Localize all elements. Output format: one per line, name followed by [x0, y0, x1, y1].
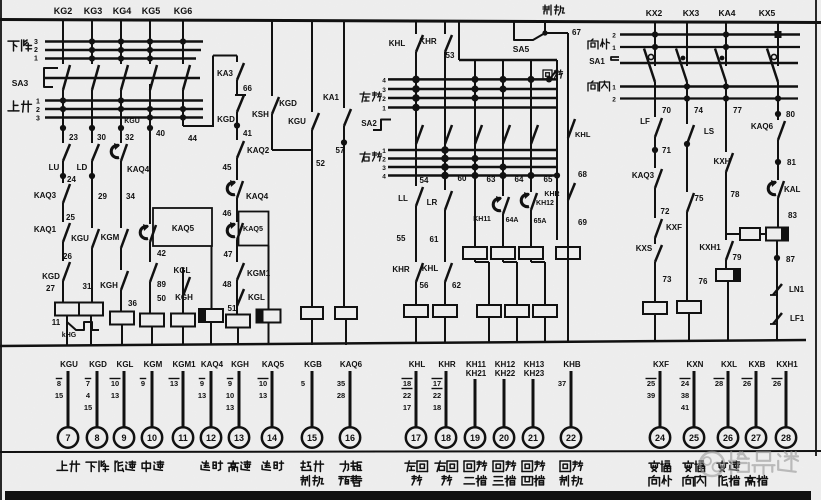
wire KGD column	[271, 21, 273, 96]
contact pivot ring	[771, 54, 776, 59]
svg-text:44: 44	[188, 134, 197, 143]
svg-text:40: 40	[156, 129, 165, 138]
svg-text:KHB: KHB	[563, 360, 581, 369]
wire coil to bus	[654, 314, 656, 341]
svg-text:29: 29	[98, 192, 107, 201]
coil KH11	[463, 247, 487, 259]
junction dot 24	[60, 173, 66, 179]
junction dots KA4	[723, 31, 729, 37]
wire 53 column	[458, 21, 460, 60]
contact KGM	[121, 229, 128, 248]
svg-text:9: 9	[121, 433, 126, 443]
svg-text:LR: LR	[427, 198, 438, 207]
svg-text:KGU: KGU	[124, 118, 140, 125]
svg-text:KH23: KH23	[524, 369, 545, 378]
wire rotation column 63	[502, 60, 504, 196]
junction dots col60	[472, 76, 479, 83]
svg-text:75: 75	[695, 194, 704, 203]
svg-text:16: 16	[345, 433, 355, 443]
contact LU	[63, 144, 70, 161]
contact KAQ3	[63, 184, 70, 203]
svg-text:KG6: KG6	[174, 6, 193, 16]
svg-text:53: 53	[446, 51, 455, 60]
wire coil to bus	[151, 327, 153, 346]
wire coil to bus	[210, 322, 212, 346]
svg-text:KGM1: KGM1	[247, 269, 271, 278]
coil KAQ6	[335, 307, 357, 319]
svg-text:KH22: KH22	[495, 369, 516, 378]
svg-text:66: 66	[243, 84, 252, 93]
junction dot 81	[775, 159, 781, 165]
svg-text:2: 2	[34, 47, 38, 54]
wire KA1 column	[343, 21, 345, 108]
contact KXH1	[726, 241, 733, 260]
svg-text:47: 47	[224, 250, 233, 259]
svg-text:SA3: SA3	[12, 78, 29, 88]
svg-text:KXL: KXL	[721, 360, 737, 369]
wire KG2 column	[62, 21, 64, 64]
junction dot 80	[775, 111, 781, 117]
contact SA2 band	[445, 125, 452, 144]
watermark text taodiaomi	[730, 452, 732, 474]
contact KAQ6	[778, 121, 785, 140]
svg-text:2: 2	[612, 33, 616, 40]
svg-text:LD: LD	[77, 163, 88, 172]
svg-text:11: 11	[52, 318, 61, 327]
svg-text:28: 28	[781, 433, 791, 443]
svg-text:50: 50	[157, 294, 166, 303]
contact LS	[687, 125, 694, 144]
svg-text:42: 42	[157, 249, 166, 258]
junction dots col64	[528, 76, 535, 83]
contact KA3	[236, 56, 238, 63]
contact KGU	[312, 113, 319, 130]
svg-text:54: 54	[420, 176, 429, 185]
label zuozhuan (left turn)	[360, 93, 370, 95]
row end hook	[549, 71, 556, 80]
svg-text:31: 31	[83, 282, 92, 291]
svg-text:22: 22	[433, 391, 441, 400]
svg-text:SA2: SA2	[361, 119, 377, 128]
coil KH23	[533, 305, 557, 317]
SA3 common line	[45, 77, 200, 79]
svg-text:76: 76	[699, 277, 708, 286]
wire KHL column	[415, 21, 417, 34]
contact SA1 KX5	[767, 49, 778, 83]
SA1 common line	[620, 62, 798, 64]
junction dots KG6	[180, 38, 186, 44]
contact LL	[416, 187, 423, 206]
contact SA2 band	[475, 125, 482, 144]
svg-text:56: 56	[420, 281, 429, 290]
svg-text:KGM1: KGM1	[172, 360, 196, 369]
svg-text:KG3: KG3	[84, 6, 103, 16]
svg-text:KAQ4: KAQ4	[246, 192, 269, 201]
svg-text:52: 52	[316, 159, 325, 168]
contact KAQ3	[655, 169, 662, 188]
svg-text:KAQ6: KAQ6	[340, 360, 363, 369]
svg-text:1: 1	[382, 148, 386, 155]
label huizhuan (rotate)	[543, 69, 552, 71]
svg-text:7: 7	[65, 433, 70, 443]
svg-text:10: 10	[147, 433, 157, 443]
svg-text:26: 26	[743, 379, 751, 388]
coil KGB	[301, 307, 323, 319]
wire KG6 to KA3 loop	[183, 125, 213, 127]
svg-text:KH21: KH21	[466, 369, 487, 378]
svg-text:KHR: KHR	[419, 37, 437, 46]
svg-text:69: 69	[578, 218, 587, 227]
svg-text:LF: LF	[640, 117, 650, 126]
wire coil to bus	[66, 316, 68, 346]
svg-text:22: 22	[403, 391, 411, 400]
wire coil to bus	[415, 317, 417, 343]
svg-text:55: 55	[397, 234, 406, 243]
svg-text:19: 19	[470, 433, 480, 443]
svg-text:3: 3	[36, 116, 40, 123]
svg-text:kHG: kHG	[62, 332, 77, 339]
svg-text:KA4: KA4	[718, 8, 735, 18]
svg-text:KAQ3: KAQ3	[632, 171, 655, 180]
svg-text:4: 4	[382, 174, 386, 181]
junction dots KG3	[89, 38, 95, 44]
svg-text:17: 17	[403, 403, 411, 412]
contact KAQ1	[63, 223, 70, 242]
svg-text:61: 61	[430, 235, 439, 244]
svg-text:KH12: KH12	[536, 200, 554, 207]
svg-text:73: 73	[663, 275, 672, 284]
svg-text:KHR: KHR	[544, 191, 559, 198]
wire SA5 output line	[459, 59, 557, 61]
svg-text:39: 39	[647, 391, 655, 400]
svg-text:LS: LS	[704, 127, 715, 136]
svg-text:9: 9	[228, 379, 232, 388]
coil KAL	[740, 228, 760, 240]
contact KHR	[416, 263, 423, 282]
svg-text:KX2: KX2	[646, 8, 663, 18]
coil KXL	[716, 269, 740, 281]
contact pivot ring	[648, 54, 653, 59]
svg-text:17: 17	[411, 433, 421, 443]
contact SA2 band	[416, 125, 423, 144]
svg-text:7: 7	[86, 379, 90, 388]
watermark logo circle	[700, 452, 798, 476]
svg-text:3: 3	[382, 87, 386, 94]
terminal baseline	[0, 451, 821, 452]
junction dots col63	[500, 76, 507, 83]
svg-text:SA1: SA1	[589, 57, 605, 66]
coil KH12	[491, 247, 515, 259]
wire coil to bus	[182, 327, 184, 346]
svg-text:KAQ5: KAQ5	[262, 360, 285, 369]
descend row lines (xiajiang 3,2,1)	[45, 40, 203, 43]
contact KGM1	[237, 263, 244, 280]
coil KH22	[505, 305, 529, 317]
svg-text:KGM: KGM	[144, 360, 163, 369]
svg-text:KGH: KGH	[100, 281, 118, 290]
svg-text:13: 13	[259, 391, 267, 400]
contact SA1 KX2	[644, 49, 655, 83]
delay contact KH11	[503, 197, 509, 214]
wire coil to bus	[121, 325, 123, 346]
contact SA1 KX3	[676, 49, 687, 83]
wire coil to bus	[688, 313, 690, 341]
svg-text:KAQ4: KAQ4	[201, 360, 224, 369]
svg-text:77: 77	[733, 106, 742, 115]
wire coil to bus	[544, 317, 546, 343]
svg-text:24: 24	[655, 433, 665, 443]
wire KX3 column	[686, 21, 688, 66]
svg-text:48: 48	[223, 280, 232, 289]
wire KGU column	[311, 21, 313, 112]
junction dot col65	[554, 172, 560, 178]
contact KGL	[237, 289, 244, 306]
label shangsheng (ascend)	[13, 101, 15, 111]
svg-text:KX3: KX3	[683, 8, 700, 18]
coil KGM1	[171, 314, 195, 327]
junction dots KHR right-turn	[441, 146, 449, 154]
svg-text:63: 63	[487, 175, 496, 184]
svg-text:26: 26	[723, 433, 733, 443]
svg-text:10: 10	[259, 379, 267, 388]
svg-text:64: 64	[515, 175, 524, 184]
coil KGH	[226, 315, 250, 328]
svg-text:18: 18	[403, 379, 411, 388]
contact KGD	[272, 97, 279, 114]
relay box KAQ5b	[239, 212, 269, 246]
svg-text:KGU: KGU	[71, 234, 89, 243]
wire to lower coil	[502, 259, 504, 262]
svg-text:10: 10	[226, 391, 234, 400]
svg-text:12: 12	[206, 433, 216, 443]
svg-text:LU: LU	[49, 163, 60, 172]
svg-text:34: 34	[126, 192, 135, 201]
svg-text:3: 3	[382, 165, 386, 172]
svg-text:1: 1	[612, 85, 616, 92]
contact KA1	[344, 109, 351, 126]
wire KA3 loop left	[212, 56, 214, 128]
svg-text:13: 13	[234, 433, 244, 443]
wire coil to bus	[444, 317, 446, 343]
svg-text:25: 25	[689, 433, 699, 443]
wire KG3 column	[91, 21, 93, 64]
wire brake tap	[544, 22, 546, 33]
wire coil to bus	[488, 317, 490, 343]
svg-text:24: 24	[67, 175, 76, 184]
svg-text:38: 38	[681, 391, 689, 400]
svg-text:24: 24	[681, 379, 690, 388]
outward row lines	[620, 33, 800, 36]
svg-text:KGD: KGD	[89, 360, 107, 369]
contact SA2 band	[503, 125, 510, 144]
wire KG6 column	[182, 21, 184, 64]
svg-text:KA3: KA3	[217, 69, 234, 78]
svg-text:23: 23	[69, 133, 78, 142]
wire to coil KAL	[726, 233, 740, 235]
inward row lines	[620, 85, 798, 88]
wire coil to bus	[90, 316, 92, 346]
coil KH13	[519, 247, 543, 259]
svg-text:79: 79	[733, 253, 742, 262]
svg-text:32: 32	[125, 133, 134, 142]
svg-text:KXH: KXH	[714, 157, 731, 166]
svg-text:KXH1: KXH1	[699, 243, 721, 252]
svg-text:62: 62	[452, 281, 461, 290]
label xiajiang (descend)	[8, 40, 19, 42]
junction dots KX2	[652, 31, 658, 37]
wire brake column 67	[567, 33, 569, 343]
svg-text:57: 57	[336, 146, 345, 155]
svg-text:KX5: KX5	[759, 8, 776, 18]
wire coil to bus	[311, 319, 313, 345]
svg-text:LF1: LF1	[790, 314, 805, 323]
svg-text:41: 41	[681, 403, 689, 412]
wire KX2 column	[654, 21, 656, 66]
contact LF1	[773, 313, 782, 324]
svg-text:46: 46	[223, 209, 232, 218]
svg-text:21: 21	[528, 433, 538, 443]
svg-text:25: 25	[647, 379, 655, 388]
svg-text:36: 36	[128, 299, 137, 308]
contact KSH	[237, 95, 244, 112]
coil KGU	[55, 303, 79, 316]
svg-text:83: 83	[788, 211, 797, 220]
svg-text:67: 67	[572, 28, 581, 37]
wire KA3 loop top	[213, 55, 237, 57]
scan left border	[0, 0, 2, 500]
svg-text:KSH: KSH	[252, 110, 269, 119]
contact SA2 band	[531, 125, 538, 144]
wire KHR column	[444, 21, 446, 34]
contact KGH	[121, 271, 128, 290]
scan right border	[815, 0, 817, 456]
relay box KAQ5	[153, 208, 212, 246]
svg-text:KGU: KGU	[60, 360, 78, 369]
wire KG5 column	[149, 21, 151, 64]
svg-text:65: 65	[544, 175, 553, 184]
svg-text:80: 80	[786, 110, 795, 119]
contact LR	[445, 191, 452, 210]
junction dots KG4	[118, 38, 124, 44]
svg-text:45: 45	[223, 163, 232, 172]
svg-text:68: 68	[578, 170, 587, 179]
delay contact KAL	[778, 181, 784, 198]
svg-text:13: 13	[198, 391, 206, 400]
delay contact KAQ5 arm	[150, 225, 156, 242]
svg-text:20: 20	[499, 433, 509, 443]
wire KX5 column	[777, 21, 779, 66]
coil KXF	[643, 302, 667, 314]
svg-text:KHR: KHR	[438, 360, 456, 369]
svg-text:37: 37	[558, 379, 566, 388]
wire coil to bus	[345, 319, 347, 345]
delay contact KAQ4	[121, 144, 127, 161]
svg-text:15: 15	[84, 403, 92, 412]
svg-text:KHL: KHL	[575, 130, 591, 139]
right-turn row lines	[388, 149, 557, 152]
contact KGD	[63, 262, 70, 281]
svg-text:4: 4	[382, 78, 386, 85]
contact KXN	[687, 193, 694, 212]
svg-text:28: 28	[715, 379, 723, 388]
svg-text:2: 2	[382, 157, 386, 164]
contact SA1 KA4	[715, 49, 726, 83]
svg-text:30: 30	[97, 133, 106, 142]
svg-text:28: 28	[337, 391, 345, 400]
wire to lower coil	[530, 259, 532, 262]
ascend row lines (shangsheng 1,2,3)	[45, 99, 203, 102]
svg-text:13: 13	[170, 379, 178, 388]
svg-text:KXS: KXS	[636, 244, 653, 253]
svg-text:2: 2	[612, 97, 616, 104]
contact KXH	[726, 153, 733, 172]
svg-text:KH12: KH12	[495, 360, 516, 369]
wire coil to bus	[516, 317, 518, 343]
svg-text:60: 60	[458, 174, 467, 183]
coil KXB	[766, 228, 788, 241]
svg-text:KGD: KGD	[42, 272, 60, 281]
svg-text:KA1: KA1	[323, 93, 340, 102]
svg-text:64A: 64A	[506, 217, 519, 224]
svg-text:KHR: KHR	[392, 265, 410, 274]
junction dot 71	[652, 147, 658, 153]
svg-text:SA5: SA5	[513, 44, 530, 54]
contact KHR2	[568, 183, 575, 200]
svg-text:35: 35	[337, 379, 345, 388]
svg-text:10: 10	[111, 379, 119, 388]
svg-text:51: 51	[228, 304, 237, 313]
contact KGL	[150, 263, 157, 282]
svg-text:KGL: KGL	[117, 360, 134, 369]
junction dots KG2	[60, 97, 66, 103]
svg-text:17: 17	[433, 379, 441, 388]
svg-text:KGL: KGL	[248, 293, 265, 302]
svg-text:LN1: LN1	[789, 285, 805, 294]
svg-text:9: 9	[141, 379, 145, 388]
contact KXF	[655, 219, 662, 238]
wire KG4 column	[120, 21, 122, 64]
svg-text:KAQ5: KAQ5	[172, 224, 195, 233]
svg-text:KAQ4: KAQ4	[127, 165, 150, 174]
junction dots KG5	[147, 38, 153, 44]
svg-text:18: 18	[433, 403, 441, 412]
svg-text:26: 26	[773, 379, 781, 388]
svg-text:KAQ2: KAQ2	[247, 146, 270, 155]
delay contact KAQ4	[237, 181, 243, 198]
coil KGM	[140, 314, 164, 327]
svg-text:2: 2	[382, 96, 386, 103]
contact KGU	[92, 229, 99, 248]
left-turn row lines	[388, 78, 557, 81]
svg-text:26: 26	[63, 252, 72, 261]
coil KHB	[556, 247, 580, 259]
svg-text:KG4: KG4	[113, 6, 132, 16]
svg-text:1: 1	[36, 99, 40, 106]
svg-text:81: 81	[787, 158, 796, 167]
svg-text:KGD: KGD	[279, 99, 297, 108]
svg-text:41: 41	[243, 129, 252, 138]
svg-text:9: 9	[200, 379, 204, 388]
wire rotation column 60	[474, 60, 476, 247]
wire coil to bus	[237, 328, 239, 346]
svg-text:25: 25	[66, 213, 75, 222]
coil KAQ3	[199, 309, 223, 322]
svg-text:3: 3	[34, 39, 38, 46]
contact LN1	[773, 284, 782, 295]
bottom black bar	[5, 491, 811, 500]
coil KHR	[433, 305, 457, 317]
svg-text:8: 8	[94, 433, 99, 443]
